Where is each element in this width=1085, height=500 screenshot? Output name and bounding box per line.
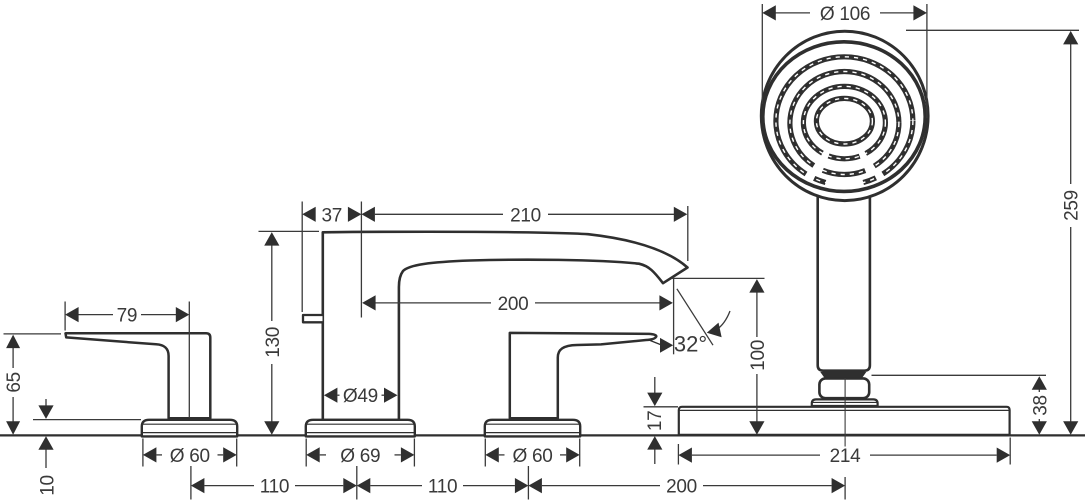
dim Ø60 left ext lines xyxy=(142,439,144,467)
110 a arrows xyxy=(191,478,205,493)
dim Ø60 right line xyxy=(499,454,505,456)
Ø106 arrows xyxy=(762,5,776,20)
dim 100 ext line xyxy=(672,277,765,279)
holder clamp (dark) xyxy=(820,372,866,378)
dim 200 right ext line xyxy=(673,279,675,354)
svg-text:Ø 60: Ø 60 xyxy=(170,446,210,467)
100 arrows xyxy=(749,279,764,293)
79 arrows xyxy=(65,307,79,322)
right handle leader line to extension xyxy=(648,340,662,345)
dim Ø69 ext lines xyxy=(305,439,307,467)
dim 10 ref line xyxy=(33,419,141,421)
Ø60 right arrows xyxy=(485,447,499,462)
dim 38 ext line xyxy=(872,374,1047,376)
110 b arrows xyxy=(357,478,371,493)
svg-text:110: 110 xyxy=(260,477,289,498)
dim 210 line xyxy=(375,213,503,215)
svg-text:Ø 106: Ø 106 xyxy=(820,4,870,25)
svg-text:32°: 32° xyxy=(674,332,707,357)
hand shower bar handle xyxy=(818,183,870,371)
svg-text:259: 259 xyxy=(1062,190,1083,221)
svg-text:38: 38 xyxy=(1030,395,1051,416)
32 leader arrowhead xyxy=(707,320,726,337)
spout diverter tab xyxy=(303,315,323,322)
65 arrows xyxy=(6,335,20,349)
dim 214 line xyxy=(692,454,820,456)
130 arrows xyxy=(264,232,279,246)
svg-text:214: 214 xyxy=(830,446,862,467)
bottom ticks xyxy=(190,466,192,500)
Ø69 arrows xyxy=(306,447,320,462)
svg-text:Ø 69: Ø 69 xyxy=(340,446,380,467)
svg-text:130: 130 xyxy=(263,327,284,358)
dim 130 ext line xyxy=(259,230,320,232)
dim Ø60 left line xyxy=(156,454,162,456)
210 arrows xyxy=(361,207,375,222)
200 bottom arrows xyxy=(528,478,542,493)
dim 79 ext line xyxy=(64,302,66,331)
Ø49 arrows xyxy=(324,388,338,403)
spray ring D xyxy=(816,98,872,144)
left handle H1 body xyxy=(66,333,211,418)
dim 100 line xyxy=(756,290,758,337)
dim Ø60 right ext lines xyxy=(484,439,486,467)
dim 65 line xyxy=(12,345,14,368)
10 arrows xyxy=(38,405,53,419)
deck line xyxy=(0,434,1085,436)
svg-text:10: 10 xyxy=(38,475,59,496)
dim 259 ext line xyxy=(906,29,1079,31)
angle 32 stream line xyxy=(677,289,713,345)
dim Ø106 ext lines xyxy=(761,4,763,104)
Ø60 left arrows xyxy=(143,447,157,462)
dim 38 line xyxy=(1038,387,1040,393)
svg-text:100: 100 xyxy=(748,340,769,371)
svg-text:200: 200 xyxy=(498,294,529,315)
shower center line xyxy=(844,378,846,447)
dim 214 ext lines xyxy=(677,444,679,465)
37 arrows xyxy=(302,207,316,222)
dim 79 line xyxy=(77,314,113,316)
spray ring A xyxy=(776,57,913,185)
dim 17 arrow stems xyxy=(654,377,656,396)
dim Ø49 line xyxy=(337,394,339,396)
svg-text:Ø49: Ø49 xyxy=(343,386,378,407)
dim 37 ext lines xyxy=(301,202,303,313)
svg-text:37: 37 xyxy=(322,205,343,226)
spout body xyxy=(323,232,688,420)
spray ring C xyxy=(803,86,885,158)
dim 259 line xyxy=(1070,42,1072,184)
holder collar xyxy=(812,399,878,406)
dim 200 bottom line xyxy=(542,485,660,487)
svg-text:200: 200 xyxy=(666,477,697,498)
svg-text:17: 17 xyxy=(645,411,666,432)
dim 17 ext line xyxy=(644,406,679,408)
214 arrows xyxy=(678,448,692,463)
right handle H2 body xyxy=(510,333,657,418)
svg-text:65: 65 xyxy=(4,372,25,393)
dim 110 b line xyxy=(370,485,422,487)
dim 65 ext line xyxy=(4,333,62,335)
17 arrows xyxy=(647,393,662,407)
left handle base escutcheon xyxy=(142,420,237,437)
svg-text:Ø 60: Ø 60 xyxy=(513,446,553,467)
dim Ø106 line xyxy=(775,12,810,14)
shower head rim circle xyxy=(763,42,925,192)
dim 10 arrow stems xyxy=(45,399,47,408)
shower head outer circle xyxy=(761,31,928,200)
spray ring B xyxy=(790,72,899,175)
svg-text:79: 79 xyxy=(117,306,138,327)
dim 130 line xyxy=(271,243,273,321)
svg-text:110: 110 xyxy=(428,477,457,498)
259 arrows xyxy=(1063,31,1078,45)
holder body xyxy=(819,378,869,398)
dim Ø69 line xyxy=(320,454,326,456)
200 middle arrows xyxy=(362,295,376,310)
38 arrows xyxy=(1032,376,1047,390)
right handle base escutcheon xyxy=(485,420,580,437)
shower base plate xyxy=(679,407,1010,435)
dim 210 ext line xyxy=(687,206,689,261)
spout base escutcheon xyxy=(306,420,415,437)
angle 32 leader arc xyxy=(717,311,731,330)
dim 110 a line xyxy=(204,485,254,487)
svg-text:210: 210 xyxy=(510,205,541,226)
dim 200 middle line xyxy=(376,302,492,304)
